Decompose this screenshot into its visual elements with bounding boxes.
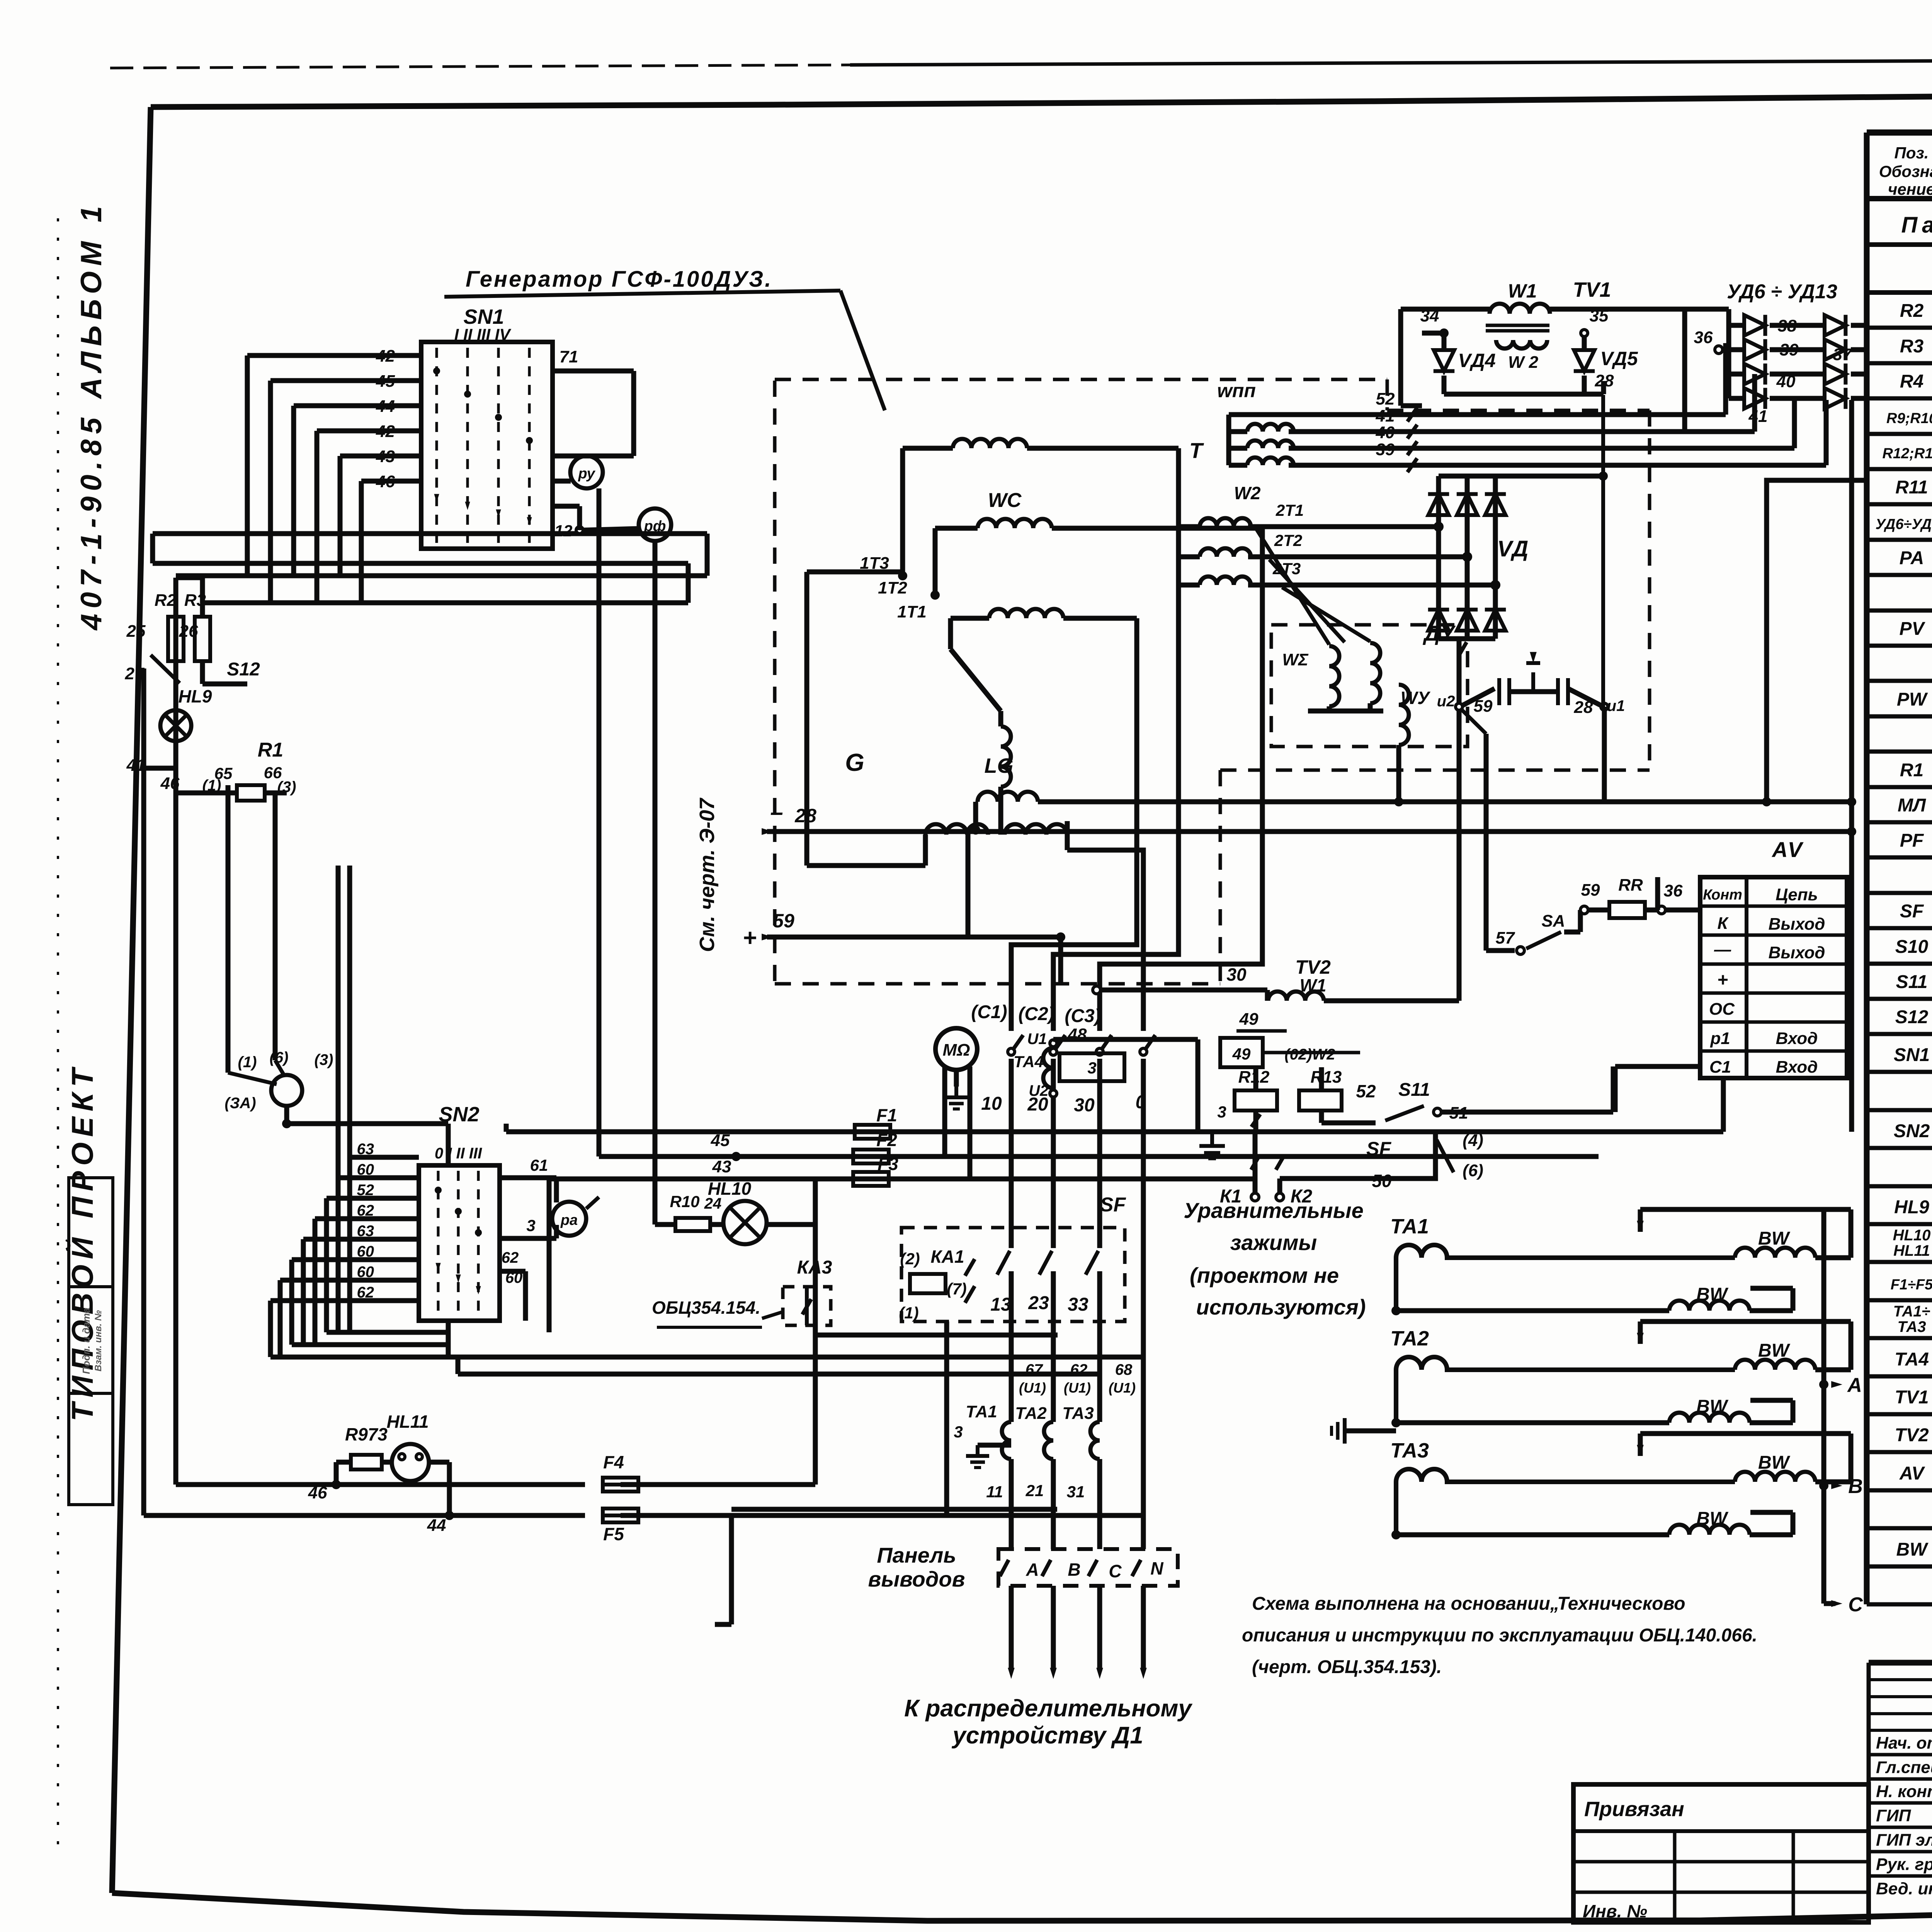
svg-text:Н. контр: Н. контр — [1876, 1782, 1932, 1801]
svg-text:3: 3 — [526, 1216, 535, 1235]
svg-text:чение: чение — [1888, 180, 1932, 198]
svg-text:41: 41 — [126, 756, 146, 775]
svg-text:(U1): (U1) — [1064, 1380, 1091, 1396]
svg-text:используются): используются) — [1196, 1295, 1366, 1319]
svg-text:BW: BW — [1696, 1396, 1729, 1417]
svg-text:59: 59 — [1474, 697, 1493, 716]
svg-text:26: 26 — [179, 622, 198, 641]
svg-text:(черт. ОБЦ.354.153).: (черт. ОБЦ.354.153). — [1252, 1657, 1442, 1677]
svg-text:TV1: TV1 — [1895, 1387, 1929, 1408]
svg-text:(проектом не: (проектом не — [1190, 1263, 1339, 1287]
svg-text:68: 68 — [1115, 1361, 1133, 1378]
svg-text:3: 3 — [954, 1423, 963, 1441]
svg-text:F2: F2 — [876, 1130, 897, 1150]
svg-text:R11: R11 — [1895, 477, 1928, 498]
svg-text:F1÷F5: F1÷F5 — [1891, 1277, 1932, 1293]
svg-text:44: 44 — [427, 1516, 446, 1535]
svg-text:SF: SF — [1900, 901, 1924, 922]
svg-text:59: 59 — [1581, 881, 1600, 900]
svg-text:К распределительному: К распределительному — [904, 1695, 1193, 1722]
svg-text:N: N — [1150, 1558, 1163, 1578]
svg-text:PF: PF — [1900, 830, 1924, 851]
svg-text:BW: BW — [1696, 1509, 1729, 1529]
svg-text:Уравнительные: Уравнительные — [1184, 1198, 1364, 1223]
svg-text:выводов: выводов — [868, 1567, 965, 1591]
svg-text:0 I II III: 0 I II III — [435, 1145, 482, 1162]
svg-text:МΩ: МΩ — [942, 1041, 970, 1060]
svg-text:10: 10 — [981, 1094, 1002, 1114]
svg-text:31: 31 — [1067, 1483, 1085, 1501]
svg-text:+: + — [1717, 970, 1728, 990]
svg-text:устройству Д1: устройству Д1 — [951, 1722, 1143, 1749]
svg-text:(С3): (С3) — [1065, 1006, 1100, 1026]
svg-text:ТV1: ТV1 — [1573, 278, 1611, 301]
svg-text:Схема выполнена на основании„Т: Схема выполнена на основании„Техническов… — [1252, 1594, 1685, 1614]
svg-text:49: 49 — [1232, 1045, 1251, 1063]
svg-text:36: 36 — [1694, 328, 1713, 347]
svg-text:ТА3: ТА3 — [1897, 1318, 1926, 1335]
svg-text:зажимы: зажимы — [1230, 1230, 1317, 1255]
svg-text:R9;R10: R9;R10 — [1886, 410, 1932, 427]
svg-text:34: 34 — [1420, 306, 1439, 325]
svg-text:12: 12 — [554, 522, 573, 540]
svg-text:36: 36 — [1664, 881, 1683, 900]
svg-text:21: 21 — [1026, 1481, 1044, 1500]
svg-text:Взам. инв. №: Взам. инв. № — [93, 1310, 104, 1371]
svg-text:67: 67 — [1026, 1361, 1043, 1378]
svg-text:25: 25 — [126, 622, 146, 641]
svg-text:Вход: Вход — [1776, 1029, 1818, 1048]
svg-text:ра: ра — [560, 1212, 578, 1228]
svg-text:2Т2: 2Т2 — [1274, 531, 1302, 549]
svg-text:RR: RR — [1618, 876, 1643, 895]
svg-text:U1: U1 — [1027, 1031, 1047, 1048]
svg-text:Привязан: Привязан — [1584, 1798, 1684, 1821]
svg-text:W1: W1 — [1508, 280, 1537, 302]
svg-text:R12;R13: R12;R13 — [1882, 446, 1932, 462]
svg-text:(U1): (U1) — [1019, 1380, 1046, 1396]
svg-text:HL11: HL11 — [386, 1412, 429, 1432]
svg-text:С1: С1 — [1709, 1058, 1731, 1077]
svg-text:(3): (3) — [315, 1051, 333, 1068]
svg-text:G: G — [845, 748, 864, 776]
svg-text:—: — — [1714, 940, 1731, 959]
svg-text:VД: VД — [1497, 536, 1529, 561]
svg-text:S12: S12 — [1895, 1007, 1929, 1027]
svg-text:52: 52 — [1356, 1081, 1376, 1101]
svg-text:I II III IV: I II III IV — [454, 325, 512, 344]
svg-text:R13: R13 — [1311, 1068, 1342, 1087]
svg-text:(7): (7) — [947, 1280, 966, 1298]
svg-text:50: 50 — [1372, 1171, 1392, 1191]
svg-text:R1: R1 — [1900, 760, 1923, 781]
svg-text:PW: PW — [1897, 689, 1928, 710]
svg-text:Панель: Панель — [877, 1543, 956, 1567]
svg-text:А: А — [1026, 1560, 1039, 1580]
svg-text:(U1): (U1) — [1109, 1380, 1136, 1396]
svg-text:Рук. гр.: Рук. гр. — [1876, 1855, 1932, 1874]
svg-text:SF: SF — [1100, 1194, 1126, 1216]
svg-text:РА: РА — [1900, 548, 1924, 568]
svg-text:ГИП эл.ч.: ГИП эл.ч. — [1876, 1831, 1932, 1850]
svg-text:43: 43 — [712, 1157, 731, 1176]
svg-text:R1: R1 — [258, 739, 283, 761]
svg-text:(4): (4) — [1463, 1131, 1483, 1150]
svg-text:HL11: HL11 — [1893, 1242, 1930, 1259]
svg-text:1Т2: 1Т2 — [878, 578, 907, 597]
svg-text:Инв. №: Инв. № — [1583, 1901, 1647, 1921]
svg-text:–: – — [770, 799, 783, 825]
svg-text:WΣ: WΣ — [1282, 650, 1309, 669]
svg-text:Вед. инж.: Вед. инж. — [1876, 1879, 1932, 1898]
svg-text:S10: S10 — [1895, 937, 1929, 957]
svg-text:R2: R2 — [1900, 301, 1924, 321]
svg-text:В: В — [1068, 1560, 1080, 1580]
svg-text:28: 28 — [794, 805, 816, 827]
svg-text:А: А — [1847, 1374, 1862, 1396]
svg-text:Т: Т — [1189, 438, 1204, 463]
svg-text:ТА1: ТА1 — [1390, 1215, 1429, 1238]
svg-text:27: 27 — [125, 664, 145, 683]
svg-text:W2: W2 — [1234, 483, 1261, 503]
svg-text:F4: F4 — [603, 1452, 624, 1472]
svg-text:61: 61 — [530, 1156, 548, 1174]
svg-text:39: 39 — [1780, 340, 1799, 359]
svg-text:SN2: SN2 — [1894, 1121, 1930, 1141]
svg-text:13: 13 — [990, 1294, 1011, 1315]
svg-text:(С2): (С2) — [1018, 1004, 1054, 1024]
svg-text:Выход: Выход — [1769, 915, 1825, 934]
svg-text:SN2: SN2 — [439, 1103, 479, 1126]
svg-text:41: 41 — [1376, 406, 1395, 425]
svg-text:S12: S12 — [227, 659, 260, 680]
svg-text:(1): (1) — [238, 1054, 257, 1071]
svg-text:BW: BW — [1758, 1340, 1791, 1361]
svg-text:SN1: SN1 — [463, 305, 504, 328]
svg-text:Обозна-: Обозна- — [1879, 162, 1932, 180]
svg-text:Нач. отд.: Нач. отд. — [1876, 1734, 1932, 1753]
svg-text:УД6 ÷ УД13: УД6 ÷ УД13 — [1727, 281, 1837, 303]
svg-text:+: + — [743, 925, 757, 951]
svg-text:р1: р1 — [1710, 1029, 1730, 1048]
svg-text:3: 3 — [1217, 1103, 1226, 1121]
svg-text:39: 39 — [1376, 440, 1395, 459]
svg-text:35: 35 — [1590, 306, 1609, 325]
svg-text:ТА4: ТА4 — [1014, 1053, 1044, 1071]
svg-text:62: 62 — [502, 1249, 519, 1266]
svg-text:Цепь: Цепь — [1776, 885, 1818, 904]
svg-text:30: 30 — [1074, 1095, 1095, 1116]
svg-text:BW: BW — [1896, 1539, 1929, 1560]
svg-text:Подп. и дата: Подп. и дата — [80, 1308, 92, 1374]
svg-text:КА1: КА1 — [930, 1247, 964, 1267]
svg-text:ОБЦ354.154.: ОБЦ354.154. — [652, 1298, 760, 1318]
svg-text:3: 3 — [1087, 1059, 1096, 1077]
svg-text:HL10: HL10 — [1893, 1227, 1931, 1244]
svg-text:R973: R973 — [345, 1424, 388, 1444]
svg-text:BW: BW — [1758, 1228, 1791, 1249]
svg-text:ру: ру — [578, 466, 595, 482]
svg-text:57: 57 — [1496, 929, 1515, 947]
svg-text:В: В — [1848, 1475, 1863, 1498]
svg-text:407-1-90.85 АЛЬБОМ 1: 407-1-90.85 АЛЬБОМ 1 — [75, 201, 108, 631]
svg-text:(1): (1) — [899, 1304, 918, 1322]
svg-text:ТА3: ТА3 — [1062, 1404, 1094, 1423]
svg-text:АV: АV — [1771, 837, 1804, 862]
svg-text:МЛ: МЛ — [1898, 795, 1926, 816]
svg-text:BW: BW — [1758, 1452, 1791, 1473]
svg-text:УД6÷УД13: УД6÷УД13 — [1876, 516, 1932, 532]
svg-text:Конт: Конт — [1703, 887, 1742, 903]
svg-text:38: 38 — [1778, 316, 1797, 335]
svg-text:С: С — [1848, 1594, 1863, 1616]
svg-text:AV: AV — [1899, 1463, 1925, 1484]
svg-text:ТА4: ТА4 — [1895, 1349, 1929, 1370]
svg-text:(6): (6) — [1463, 1161, 1483, 1180]
svg-text:(02)W2: (02)W2 — [1284, 1046, 1335, 1063]
svg-text:описания и инструкции по экспл: описания и инструкции по эксплуатации ОБ… — [1242, 1625, 1757, 1646]
svg-text:40: 40 — [1776, 372, 1796, 391]
svg-text:ТА1÷: ТА1÷ — [1893, 1303, 1930, 1320]
svg-text:VД5: VД5 — [1600, 348, 1638, 369]
svg-text:24: 24 — [704, 1195, 722, 1212]
svg-text:S11: S11 — [1896, 972, 1928, 992]
svg-text:71: 71 — [560, 347, 578, 366]
svg-text:Вход: Вход — [1776, 1058, 1818, 1077]
svg-text:S11: S11 — [1398, 1080, 1430, 1100]
svg-text:Гл.спец.: Гл.спец. — [1876, 1758, 1932, 1777]
svg-text:LG: LG — [985, 754, 1014, 777]
svg-text:45: 45 — [711, 1131, 730, 1150]
svg-text:С: С — [1109, 1561, 1122, 1581]
svg-text:wпп: wпп — [1217, 380, 1256, 401]
svg-text:(2): (2) — [900, 1250, 920, 1268]
svg-text:ТА3: ТА3 — [1390, 1439, 1429, 1462]
svg-text:TV2: TV2 — [1895, 1425, 1929, 1446]
svg-text:37: 37 — [1833, 345, 1853, 364]
svg-text:ТА2: ТА2 — [1015, 1404, 1047, 1423]
svg-text:33: 33 — [1068, 1294, 1088, 1315]
svg-text:R3: R3 — [1900, 336, 1924, 357]
svg-text:ТV2: ТV2 — [1295, 956, 1331, 978]
svg-text:(С1): (С1) — [971, 1002, 1007, 1022]
svg-text:11: 11 — [986, 1483, 1003, 1501]
svg-text:49: 49 — [1239, 1010, 1259, 1029]
svg-text:28: 28 — [1574, 698, 1593, 717]
svg-text:ТА2: ТА2 — [1390, 1327, 1429, 1350]
svg-text:2Т1: 2Т1 — [1276, 501, 1304, 519]
svg-text:R10: R10 — [670, 1192, 699, 1211]
svg-text:1Т1: 1Т1 — [897, 602, 927, 621]
svg-text:62: 62 — [1070, 1361, 1088, 1378]
svg-text:ГИП: ГИП — [1876, 1806, 1912, 1825]
svg-text:SА: SА — [1541, 912, 1565, 930]
svg-text:40: 40 — [1376, 423, 1395, 442]
svg-text:23: 23 — [1028, 1293, 1049, 1313]
svg-text:F5: F5 — [603, 1524, 624, 1544]
svg-text:К: К — [1717, 914, 1729, 933]
svg-text:BW: BW — [1696, 1284, 1729, 1305]
svg-text:рф: рф — [644, 518, 666, 534]
svg-text:SN1: SN1 — [1894, 1045, 1930, 1065]
svg-text:R2: R2 — [155, 591, 177, 610]
svg-text:R4: R4 — [1900, 371, 1923, 392]
svg-text:См. черт. Э-07: См. черт. Э-07 — [696, 797, 719, 952]
svg-text:HL9: HL9 — [179, 686, 212, 706]
svg-text:PV: PV — [1899, 619, 1925, 639]
svg-text:u1: u1 — [1607, 697, 1625, 714]
svg-text:Генератор ГСФ-100ДУЗ.: Генератор ГСФ-100ДУЗ. — [466, 267, 772, 292]
svg-text:ОС: ОС — [1709, 1000, 1735, 1019]
svg-text:Панель управления агрегатом: Панель управления агрегатом (ПУА) — [1901, 213, 1932, 238]
svg-text:Поз.: Поз. — [1895, 144, 1929, 162]
svg-text:W 2: W 2 — [1508, 353, 1539, 372]
svg-text:41: 41 — [1748, 407, 1768, 426]
svg-text:u2: u2 — [1437, 693, 1455, 710]
svg-text:КА3: КА3 — [797, 1257, 832, 1278]
svg-text:WC: WC — [988, 489, 1022, 512]
svg-text:F1: F1 — [876, 1105, 897, 1125]
svg-text:HL9: HL9 — [1894, 1197, 1929, 1218]
svg-text:VД4: VД4 — [1458, 350, 1495, 371]
svg-text:(ЗА): (ЗА) — [224, 1095, 256, 1112]
svg-text:F3: F3 — [878, 1154, 898, 1174]
svg-text:Выход: Выход — [1769, 943, 1825, 962]
svg-text:52: 52 — [1376, 389, 1395, 408]
svg-text:30: 30 — [1226, 964, 1247, 985]
svg-text:59: 59 — [773, 910, 794, 932]
svg-text:ТА1: ТА1 — [966, 1402, 997, 1421]
